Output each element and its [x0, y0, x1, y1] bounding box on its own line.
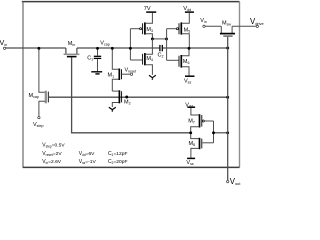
node dot row junction	[165, 37, 168, 40]
wire Msw right to Vdrive	[232, 25, 256, 27]
svg-text:C1=12pF: C1=12pF	[108, 151, 127, 157]
transistor M2	[112, 90, 118, 92]
node Vin left terminal	[3, 47, 5, 49]
wire M7 M8 gates vertical	[213, 121, 215, 143]
transistor M5	[176, 28, 178, 30]
ground arrow below M4	[149, 75, 156, 77]
capacitor C1	[97, 48, 99, 55]
node Vin top terminal	[203, 25, 205, 27]
supply bar Vdd M7	[187, 106, 195, 108]
node dot bus C1	[96, 47, 99, 50]
wire right border	[239, 2, 241, 168]
node dot M2 drain	[125, 96, 128, 99]
wire top border	[22, 1, 240, 3]
node dot bus Mcap	[37, 47, 40, 50]
svg-text:Vreset=2V: Vreset=2V	[42, 151, 62, 157]
svg-text:Vdd=6V: Vdd=6V	[79, 151, 95, 157]
wire M3 drain row	[152, 38, 166, 40]
wire M5 M6 gate vertical	[166, 29, 168, 61]
supply bar Vss M6	[185, 75, 195, 77]
wire gates segment	[214, 132, 228, 134]
transistor Msw	[221, 26, 232, 33]
node dot gates	[212, 131, 215, 134]
capacitor C2	[159, 45, 161, 51]
supply bar Vss M8	[187, 157, 195, 159]
wire left border	[22, 2, 24, 168]
wire gate drive bus	[72, 57, 191, 132]
svg-text:C2=20pF: C2=20pF	[108, 159, 127, 165]
wire main input bus	[6, 47, 228, 49]
node dot bus gates	[129, 47, 132, 50]
transistor Min	[66, 48, 77, 54]
wire M3 M4 gate vertical	[129, 29, 131, 60]
wire Vout vertical	[227, 37, 229, 180]
wire M1 gate to Vreset	[122, 73, 130, 75]
wire Mcap drain stub	[39, 48, 45, 92]
ground below C1	[91, 71, 102, 73]
node Vdrive terminal	[256, 25, 258, 27]
supply bar Vdd	[185, 11, 194, 13]
node Vreset terminal	[130, 73, 132, 75]
transistor M7	[191, 108, 199, 115]
node dot bus M5 M6	[188, 47, 191, 50]
transistor M1	[112, 48, 118, 69]
transistor M3	[140, 28, 142, 30]
node Vstep terminal	[38, 116, 40, 118]
supply bar 7V	[146, 11, 156, 13]
transistor M6	[167, 59, 179, 61]
node dot M3 drain	[151, 37, 154, 40]
ground arrow below M2	[109, 107, 116, 109]
wire M5 gate	[167, 28, 177, 30]
node dot bus end	[226, 47, 229, 50]
node Vout terminal	[227, 180, 229, 182]
svg-text:7V: 7V	[144, 6, 151, 12]
svg-text:Vss=-1V: Vss=-1V	[79, 159, 97, 165]
wire Vin to Msw	[205, 25, 221, 27]
wire M3 gate	[130, 28, 140, 30]
svg-text:Vin=2.6V: Vin=2.6V	[42, 159, 62, 165]
node dot bus M1	[111, 47, 114, 50]
wire bottom bus	[23, 166, 240, 168]
transistor M8	[191, 133, 199, 139]
wire bootstrap line y97	[49, 96, 228, 98]
node dot y97 end	[226, 96, 229, 99]
node dot Vout line gates	[226, 131, 229, 134]
transistor Mcap	[45, 91, 47, 104]
node dot drains	[189, 131, 192, 134]
transistor M4	[130, 59, 142, 61]
